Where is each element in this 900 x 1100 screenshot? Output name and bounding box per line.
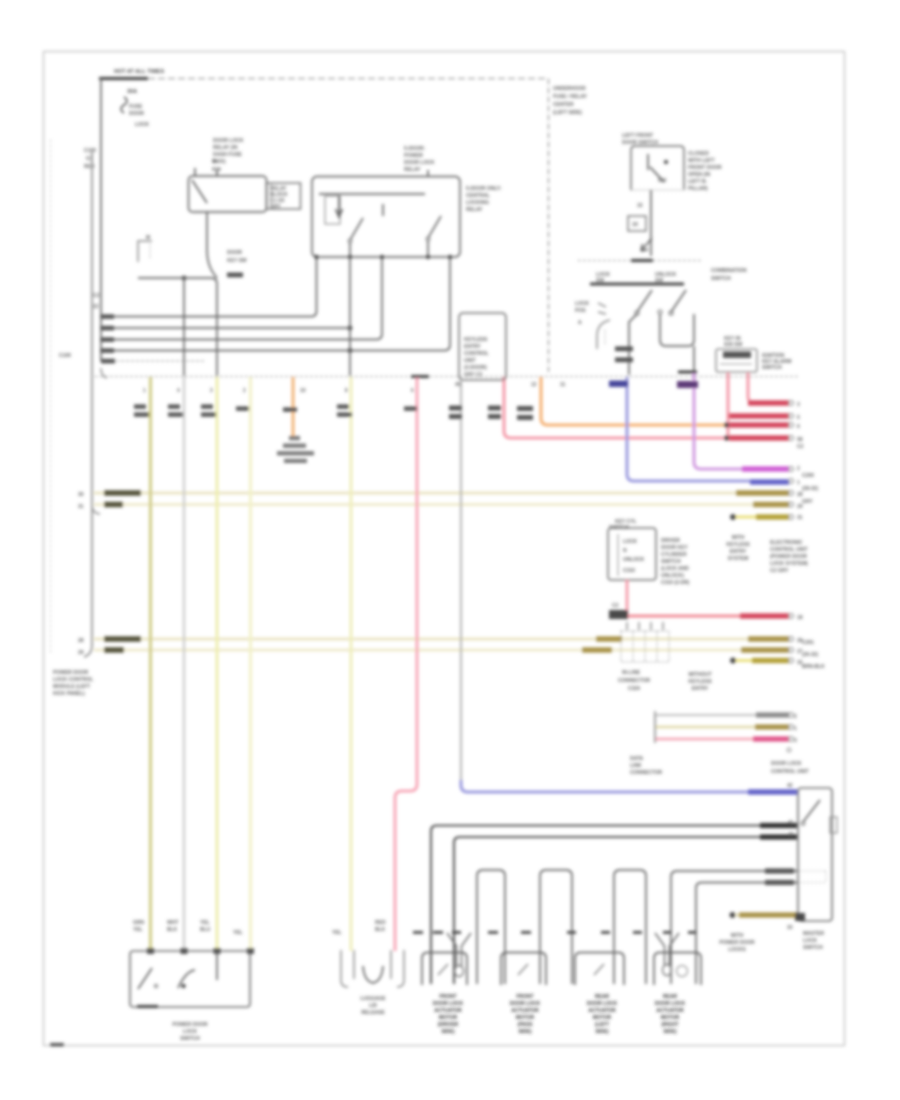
door ajar component label <box>724 336 743 348</box>
relay K2 bottom pin dots <box>314 255 318 259</box>
svg-text:LOCK: LOCK <box>623 539 638 545</box>
svg-text:22: 22 <box>93 304 99 310</box>
svg-text:ACTUATOR: ACTUATOR <box>511 1008 539 1014</box>
relay K1 pin stub top <box>194 168 196 176</box>
wire RED continuation of orange row <box>726 424 789 427</box>
relay K1 connector block right <box>267 183 301 209</box>
wire RED row B <box>728 415 789 418</box>
svg-text:RED: RED <box>375 920 386 926</box>
dark wire corner B <box>454 837 797 984</box>
module box M1 (central control) <box>459 313 506 380</box>
riser wire 1 to switch box <box>671 871 797 984</box>
connector dark segment right <box>678 371 697 374</box>
svg-text:GRN: GRN <box>133 920 145 926</box>
left bracket tan row1 <box>92 505 100 514</box>
svg-text:LOCK CONTROL: LOCK CONTROL <box>53 677 93 683</box>
inline connector grid <box>621 631 669 662</box>
V splice funnel 1 <box>447 933 471 967</box>
svg-text:M: M <box>146 235 150 241</box>
svg-text:IN-LINE: IN-LINE <box>622 670 641 676</box>
svg-text:C310 (2-DR): C310 (2-DR) <box>661 580 690 586</box>
wire V2 drop from junction <box>183 278 185 376</box>
wire drop V6 from relay K2 <box>349 257 351 376</box>
fan line wire label blobs <box>101 314 114 319</box>
trapezoid text stack B <box>688 672 712 692</box>
wire PALE-YELLOW long vertical V6 <box>350 377 353 951</box>
svg-text:31: 31 <box>797 515 803 521</box>
actuator connector bracket 3 <box>575 953 624 986</box>
svg-text:DOOR SWITCH: DOOR SWITCH <box>622 140 658 146</box>
svg-text:CONTROL UNIT: CONTROL UNIT <box>771 769 809 775</box>
wire BLUE switch drop corner <box>627 377 789 481</box>
svg-text:DOOR LOCK: DOOR LOCK <box>213 138 244 144</box>
connector dark segment mid <box>411 375 429 378</box>
combination switch contact B <box>671 290 686 312</box>
splice dot red row C <box>724 435 729 440</box>
svg-text:WITH: WITH <box>731 933 744 939</box>
svg-text:(DRIVER: (DRIVER <box>438 1022 459 1028</box>
svg-text:LOCK: LOCK <box>135 122 150 128</box>
svg-text:(3-DOOR): (3-DOOR) <box>464 365 487 371</box>
svg-text:YEL: YEL <box>200 920 210 926</box>
svg-text:6: 6 <box>411 388 414 394</box>
svg-text:MOTOR: MOTOR <box>593 1015 612 1021</box>
wire PALER-YELLOW vertical V4 <box>249 377 252 951</box>
purple wire label blob below dashed <box>677 381 698 388</box>
left module labels for tan row2 <box>78 638 84 656</box>
svg-text:POWER: POWER <box>404 153 423 159</box>
svg-text:A: A <box>578 320 582 326</box>
pin number texts right column <box>794 402 804 744</box>
pin tiny texts under dashed <box>143 382 566 394</box>
svg-text:CONTROL UNIT: CONTROL UNIT <box>770 547 808 553</box>
svg-text:DOOR LOCK: DOOR LOCK <box>510 1001 541 1007</box>
svg-text:HOT AT ALL TIMES: HOT AT ALL TIMES <box>114 69 164 75</box>
lock switch label block <box>803 931 825 951</box>
wire WHITE-GRAY vertical V2 <box>183 377 185 951</box>
svg-text:SWITCH: SWITCH <box>803 945 823 951</box>
svg-text:DOOR LOCK: DOOR LOCK <box>433 1001 464 1007</box>
door switch text right <box>688 151 722 192</box>
svg-text:MOTOR: MOTOR <box>661 1015 680 1021</box>
component dark content <box>723 352 751 359</box>
svg-text:LOCK SYSTEM): LOCK SYSTEM) <box>770 561 808 567</box>
svg-text:SWITCH: SWITCH <box>711 276 731 282</box>
svg-text:ENTRY: ENTRY <box>464 344 481 350</box>
relay K1 box (left) <box>189 176 267 212</box>
door ajar component box <box>716 349 757 372</box>
wire TAN label blobs row2 <box>104 636 141 641</box>
svg-text:(26-32): (26-32) <box>802 652 818 658</box>
left page dashed divider <box>50 140 52 653</box>
svg-text:BRN-BLK: BRN-BLK <box>802 664 825 670</box>
svg-text:WHT: WHT <box>167 920 178 926</box>
svg-text:YEL: YEL <box>133 927 143 933</box>
C-bracket wires lower right <box>655 715 789 743</box>
svg-text:40: 40 <box>788 832 794 838</box>
svg-text:CLOSED: CLOSED <box>688 151 709 157</box>
svg-text:C2: C2 <box>93 293 100 299</box>
dark wire corner A to lock switch <box>431 826 797 985</box>
svg-text:12: 12 <box>531 382 537 388</box>
relay K2 box (main door lock relay) <box>312 177 460 258</box>
right lower text block (switch illumination) <box>771 761 809 775</box>
left connector group brackets <box>341 950 348 987</box>
blue wire label blob below dashed <box>609 381 628 388</box>
actuator U loop 2 <box>540 870 572 984</box>
svg-text:ACTUATOR: ACTUATOR <box>588 1008 616 1014</box>
svg-text:10: 10 <box>300 388 306 394</box>
svg-text:BLK: BLK <box>167 927 178 933</box>
wire MAGENTA label blob <box>742 466 789 471</box>
svg-text:ACTUATOR: ACTUATOR <box>656 1008 684 1014</box>
middle module label above <box>609 519 637 531</box>
svg-text:LID: LID <box>369 1003 377 1009</box>
svg-text:1: 1 <box>143 388 146 394</box>
wire ORANGE V11 corner to orange row <box>541 377 726 425</box>
svg-text:(LEFT SIDE): (LEFT SIDE) <box>553 110 582 116</box>
switch S1 label <box>227 250 247 264</box>
svg-text:(PASS: (PASS <box>518 1022 534 1028</box>
pink wire from module down <box>626 580 629 612</box>
svg-text:UNLOCK: UNLOCK <box>623 557 645 563</box>
svg-text:ENTRY: ENTRY <box>692 686 709 692</box>
wire RED middle row <box>628 615 789 618</box>
svg-text:CENTER: CENTER <box>553 102 574 108</box>
left module labels for tan row1 <box>78 492 84 510</box>
svg-text:DOOR LOCK: DOOR LOCK <box>587 1001 618 1007</box>
wire TAN row2b <box>94 649 789 652</box>
wire TAN row2a <box>94 638 789 641</box>
wire BLUE label blob <box>750 479 789 484</box>
svg-text:15: 15 <box>637 203 643 209</box>
svg-text:WITH LEFT: WITH LEFT <box>688 158 715 164</box>
lock switch box right <box>798 788 832 921</box>
svg-text:DOOR LOCK: DOOR LOCK <box>771 761 802 767</box>
svg-text:8: 8 <box>345 388 348 394</box>
svg-text:UNLOCK): UNLOCK) <box>661 573 684 579</box>
svg-text:CONNECTOR: CONNECTOR <box>630 770 663 776</box>
relay K2 switch contact A <box>350 218 363 240</box>
svg-text:KEYLESS: KEYLESS <box>464 337 488 343</box>
wire ORANGE stub V5 to ground <box>292 377 295 436</box>
wire GRAY vertical V8 <box>460 381 462 782</box>
wire YELLOW short row2 <box>736 659 789 662</box>
cluster tick marks <box>598 303 606 314</box>
wire RED label blob row C <box>729 435 789 440</box>
door switch internals <box>647 154 649 170</box>
svg-text:DOOR: DOOR <box>227 250 242 256</box>
svg-text:SWITCH: SWITCH <box>661 559 681 565</box>
svg-text:SW: SW <box>655 278 663 284</box>
left front door switch box <box>631 146 684 190</box>
svg-text:SWITCH: SWITCH <box>762 365 782 371</box>
terminal small circle <box>787 748 791 752</box>
svg-text:IGN SW: IGN SW <box>724 342 743 348</box>
svg-text:DATA: DATA <box>630 756 644 762</box>
wire PINK V13 corner to red row A <box>748 373 789 403</box>
svg-text:5-DOOR:: 5-DOOR: <box>404 146 425 152</box>
park detent bracket <box>597 320 610 349</box>
svg-text:SIDE): SIDE) <box>595 1029 609 1035</box>
svg-text:MOTOR: MOTOR <box>516 1015 535 1021</box>
left cluster texts <box>575 301 590 326</box>
fan line 2 ending at V pale wire <box>100 327 350 329</box>
svg-text:28: 28 <box>78 638 84 644</box>
wire TAN row1a (module output, left to right connector) <box>94 492 789 495</box>
svg-text:COMBINATION: COMBINATION <box>711 268 747 274</box>
svg-text:POS: POS <box>575 308 586 314</box>
svg-text:3: 3 <box>797 402 800 408</box>
lock switch side tab <box>830 817 837 833</box>
svg-text:5-DOOR ONLY:: 5-DOOR ONLY: <box>466 186 502 192</box>
module M1 text <box>464 337 489 378</box>
middle module text right <box>661 538 690 586</box>
svg-text:C310: C310 <box>623 568 635 574</box>
right text block A <box>770 540 808 574</box>
wire PURPLE drop corner to magenta row <box>694 371 789 469</box>
power bus solid dark segment <box>99 77 148 80</box>
wire TAN label blobs row1 <box>104 490 141 495</box>
svg-text:FRONT DOOR: FRONT DOOR <box>688 165 722 171</box>
left vertical pair B (module boundary) <box>84 152 92 657</box>
svg-text:LOCKING: LOCKING <box>466 200 489 206</box>
wire BLUE bottom label blob <box>748 789 797 794</box>
relay K2 label right <box>466 186 502 213</box>
svg-text:SIDE): SIDE) <box>518 1029 532 1035</box>
wire label blobs on switch drop <box>615 346 633 351</box>
wire from bus down left <box>100 79 102 362</box>
svg-text:POWER DOOR: POWER DOOR <box>172 1022 208 1028</box>
svg-text:WITHOUT: WITHOUT <box>688 672 711 678</box>
switch S1 dark label blob <box>227 273 243 278</box>
svg-text:41: 41 <box>788 820 794 826</box>
left front door switch label <box>622 133 658 146</box>
svg-text:ELECTRONIC: ELECTRONIC <box>770 540 803 546</box>
svg-text:1K: 1K <box>632 222 639 228</box>
actuator motor text 3 <box>587 994 618 1035</box>
svg-text:30A: 30A <box>127 89 137 95</box>
svg-text:58: 58 <box>797 437 803 443</box>
arrow symbol on wire <box>641 238 652 251</box>
splice dot orange row <box>724 422 729 427</box>
wire entry nubs <box>147 948 254 954</box>
svg-text:CONNECTOR: CONNECTOR <box>618 678 651 684</box>
svg-text:KEYLESS: KEYLESS <box>688 679 712 685</box>
svg-text:RELAY: RELAY <box>404 167 421 173</box>
svg-text:BLK: BLK <box>375 927 386 933</box>
left module label block <box>53 670 93 697</box>
svg-text:IGN: IGN <box>212 167 221 173</box>
relay K1 output wire down <box>206 212 208 250</box>
svg-text:CONTROL: CONTROL <box>464 351 489 357</box>
actuator connector bracket 1 <box>422 953 467 986</box>
fan line junction dots <box>348 326 353 331</box>
component text right <box>762 353 791 371</box>
grid text below <box>618 670 651 692</box>
actuator U loop 1 <box>477 870 505 984</box>
svg-text:31: 31 <box>78 504 84 510</box>
svg-text:(LEFT: (LEFT <box>595 1022 609 1028</box>
svg-text:RELEASE: RELEASE <box>361 1010 385 1016</box>
wire PINK V10 corner to red row <box>504 377 789 438</box>
combination switch label <box>711 268 747 282</box>
svg-text:18: 18 <box>797 615 803 621</box>
svg-text:RED: RED <box>84 164 95 170</box>
wire TAN row1b <box>94 503 789 506</box>
relay K1 switch diagonal <box>192 180 207 203</box>
trapezoid text stack A <box>726 535 750 562</box>
svg-text:2: 2 <box>243 388 246 394</box>
svg-text:YEL: YEL <box>233 930 243 936</box>
svg-text:MOTOR: MOTOR <box>439 1015 458 1021</box>
relay K2 switch contact B <box>428 216 441 238</box>
svg-text:C100: C100 <box>59 353 71 359</box>
bracket with dashed link <box>138 241 152 262</box>
power bus dashed line <box>148 78 545 80</box>
bottom connector row dashes <box>413 931 696 934</box>
connector dark blob <box>609 610 628 619</box>
wire from door switch down <box>650 190 652 256</box>
dark segment on dashed <box>631 259 653 262</box>
svg-text:CENTRAL: CENTRAL <box>466 193 490 199</box>
lock switch dashed internals <box>799 871 826 883</box>
lock switch bottom nub <box>795 913 805 921</box>
grid top pin ticks <box>627 622 663 630</box>
right side connector labels <box>802 473 825 670</box>
title text block top right <box>553 86 588 116</box>
svg-text:28: 28 <box>797 492 803 498</box>
svg-text:C2: C2 <box>612 603 619 609</box>
actuator motor text 4 <box>655 994 686 1035</box>
svg-text:SW: SW <box>596 278 604 284</box>
svg-text:OPEN (IN: OPEN (IN <box>688 172 711 178</box>
wire RED label blob row A <box>748 400 789 405</box>
wire horizontal under switch <box>138 278 217 376</box>
svg-text:(RIGHT: (RIGHT <box>661 1022 678 1028</box>
svg-text:DASH FUSE: DASH FUSE <box>213 152 243 158</box>
svg-text:SWITCH: SWITCH <box>180 1036 200 1042</box>
relay K2 label above <box>404 146 435 173</box>
svg-text:UNIT: UNIT <box>464 358 476 364</box>
fuse name text <box>129 104 150 128</box>
svg-text:C2 GRY: C2 GRY <box>770 568 789 574</box>
svg-text:1: 1 <box>794 726 797 732</box>
fan line 4 <box>100 258 450 351</box>
connector dashed line main <box>95 376 798 378</box>
svg-text:11: 11 <box>560 382 566 388</box>
trapezoid text bottom right <box>719 933 755 953</box>
svg-text:C200: C200 <box>802 473 814 479</box>
relay K2 coil box <box>325 196 340 224</box>
svg-text:POWER DOOR: POWER DOOR <box>719 940 755 946</box>
small bracket below fan lines <box>101 368 107 378</box>
svg-text:LOCK: LOCK <box>183 1029 198 1035</box>
svg-text:BLU: BLU <box>200 927 211 933</box>
svg-text:(POWER DOOR: (POWER DOOR <box>770 554 807 560</box>
svg-text:KICK PANEL): KICK PANEL) <box>53 691 85 697</box>
svg-text:UNDERHOOD: UNDERHOOD <box>553 86 586 92</box>
label block above relay K2 left <box>213 138 244 165</box>
wire PINK bracket row <box>655 738 789 741</box>
svg-text:DOOR KEY: DOOR KEY <box>661 545 688 551</box>
wire OLIVE vertical V1 <box>149 377 152 951</box>
tan wire into switch box <box>736 914 797 917</box>
svg-text:FRONT: FRONT <box>516 994 533 1000</box>
svg-text:SYSTEM: SYSTEM <box>728 556 749 562</box>
riser wire 2 to switch box <box>696 883 797 985</box>
svg-text:DOOR LOCK: DOOR LOCK <box>655 1001 686 1007</box>
actuator connector bracket 2 <box>501 953 546 986</box>
svg-text:ENTRY: ENTRY <box>730 549 747 555</box>
svg-text:N: N <box>623 548 627 554</box>
svg-text:RELAY (IN: RELAY (IN <box>213 145 238 151</box>
connector texts between verticals <box>93 293 100 310</box>
page number mark bottom left <box>50 1043 64 1046</box>
svg-text:SIDE): SIDE) <box>441 1029 455 1035</box>
svg-text:WITH: WITH <box>732 535 745 541</box>
actuator U loop 3 <box>614 870 646 984</box>
svg-text:30: 30 <box>78 492 84 498</box>
relay K2 coil arrow <box>336 196 343 217</box>
transmission box internals <box>138 968 152 989</box>
svg-text:GRY: GRY <box>802 499 813 505</box>
svg-text:POWER DOOR: POWER DOOR <box>53 670 89 676</box>
relay K1 pin label above <box>212 159 221 173</box>
svg-text:DOOR LOCK: DOOR LOCK <box>404 160 435 166</box>
svg-text:LINK: LINK <box>630 763 642 769</box>
svg-text:LOCKS: LOCKS <box>728 947 746 953</box>
ground symbol text blob <box>289 436 300 440</box>
svg-text:C201: C201 <box>802 640 814 646</box>
svg-text:KEYLESS: KEYLESS <box>726 542 750 548</box>
wire YELLOW short row1 <box>736 516 789 519</box>
data link text left <box>630 756 663 776</box>
fuse symbol <box>121 97 127 113</box>
combination switch bar <box>590 283 684 286</box>
svg-text:42: 42 <box>787 783 793 789</box>
svg-text:1: 1 <box>797 480 800 486</box>
svg-text:3: 3 <box>794 738 797 744</box>
svg-text:FUSE / RELAY: FUSE / RELAY <box>553 94 588 100</box>
svg-text:LOCK: LOCK <box>803 938 818 944</box>
svg-text:2: 2 <box>797 466 800 472</box>
svg-text:BOX): BOX) <box>213 159 226 165</box>
svg-text:LEFT FRONT: LEFT FRONT <box>622 133 653 139</box>
svg-text:CYLINDER: CYLINDER <box>661 552 687 558</box>
svg-text:C2: C2 <box>797 444 804 450</box>
svg-text:LOCK: LOCK <box>575 301 590 307</box>
svg-text:REAR: REAR <box>663 994 678 1000</box>
relay K1 connector text <box>270 186 288 210</box>
svg-text:29: 29 <box>78 650 84 656</box>
svg-text:LUGGAGE: LUGGAGE <box>360 996 386 1002</box>
wire PINK long vertical V7 with jog <box>395 377 417 951</box>
svg-text:FRONT: FRONT <box>439 994 456 1000</box>
wire TAN bracket row <box>655 726 789 729</box>
svg-text:GRY: GRY <box>270 204 281 210</box>
dark label blobs wires A B <box>760 823 797 828</box>
svg-text:FUSE: FUSE <box>129 104 143 110</box>
terminal circles right column <box>789 401 794 742</box>
svg-text:REAR: REAR <box>595 994 610 1000</box>
middle module box <box>608 528 656 580</box>
svg-text:5: 5 <box>797 415 800 421</box>
wire PINK V12 from door ajar module <box>727 373 730 438</box>
pin texts 41 40 <box>788 820 794 838</box>
transmission box dark bottom segment <box>137 1005 158 1008</box>
actuator motor text 2 <box>510 994 541 1035</box>
